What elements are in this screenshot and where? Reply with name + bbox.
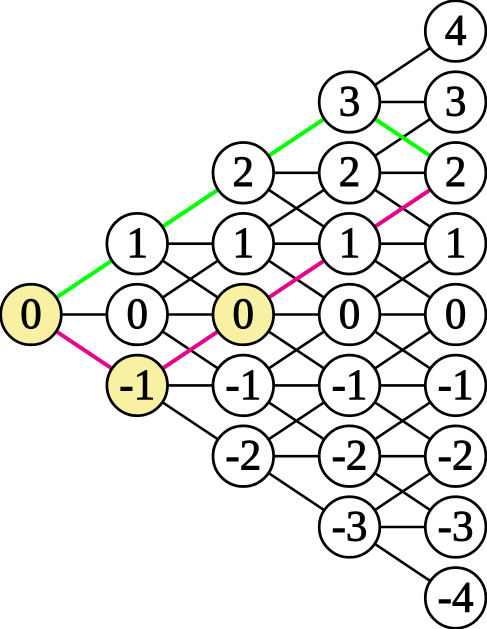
node (2,2) value 2	[213, 143, 274, 204]
svg-text:1: 1	[339, 220, 361, 267]
wire magenta path edge (2,0)-(3,1)	[243, 244, 349, 315]
wire edge (1,-1)-(2,-2)	[137, 385, 243, 456]
node (3,2) value 2	[319, 143, 380, 204]
svg-text:2: 2	[339, 149, 361, 196]
wire magenta path edge (0,0)-(1,-1)	[31, 315, 137, 386]
wire edge (3,0)-(4,-1)	[350, 315, 456, 386]
node (2,-2) value -2	[213, 426, 274, 487]
wire edge (2,2)-(3,2)	[243, 172, 349, 175]
wire magenta path edge (3,1)-(4,2)	[350, 173, 456, 244]
svg-text:2: 2	[233, 149, 255, 196]
wire green path edge (3,3)-(4,2)	[350, 102, 456, 173]
svg-text:1: 1	[126, 220, 148, 267]
node (1,-1) value -1	[107, 355, 168, 416]
svg-text:-2: -2	[438, 433, 474, 480]
wire green path edge (1,1)-(2,2)	[137, 173, 243, 244]
wire edge (2,0)-(3,-1)	[243, 315, 349, 386]
wire edge (3,2)-(4,2)	[350, 172, 456, 175]
wire edge (0,0)-(1,-1)	[31, 315, 137, 386]
wire edge (1,1)-(2,1)	[137, 242, 243, 245]
node (4,-2) value -2	[425, 426, 486, 487]
wire edge (2,0)-(3,0)	[243, 313, 349, 316]
wire edge (2,-2)-(3,-1)	[243, 385, 349, 456]
node (4,-4) value -4	[425, 568, 486, 629]
wire edge (3,1)-(4,1)	[350, 242, 456, 245]
svg-text:4: 4	[445, 8, 467, 55]
wire edge (2,-1)-(3,0)	[243, 315, 349, 386]
wire edge (2,2)-(3,1)	[243, 173, 349, 244]
node (4,-1) value -1	[425, 355, 486, 416]
wire edge (3,1)-(4,0)	[350, 244, 456, 315]
svg-text:-2: -2	[332, 433, 368, 480]
node (2,1) value 1	[213, 213, 274, 274]
wire edge (3,-1)-(4,-1)	[350, 384, 456, 387]
wire edge (2,-2)-(3,-2)	[243, 455, 349, 458]
wire edge (3,-2)-(4,-1)	[350, 385, 456, 456]
wire edge (2,1)-(3,0)	[243, 244, 349, 315]
node (2,0) value 0	[213, 284, 274, 345]
wire green path edge (2,2)-(3,3)	[243, 102, 349, 173]
wire edge (3,0)-(4,0)	[350, 313, 456, 316]
wire edge (3,3)-(4,2)	[350, 102, 456, 173]
wire edge (2,-1)-(3,-1)	[243, 384, 349, 387]
node (3,-3) value -3	[319, 497, 380, 558]
wire edge (1,0)-(2,1)	[137, 244, 243, 315]
node (3,1) value 1	[319, 213, 380, 274]
node (4,-3) value -3	[425, 497, 486, 558]
node (1,0) value 0	[107, 284, 168, 345]
wire edge (3,-3)-(4,-4)	[350, 527, 456, 598]
svg-text:-1: -1	[225, 362, 261, 409]
wire edge (1,-1)-(2,0)	[137, 315, 243, 386]
svg-text:0: 0	[339, 291, 361, 338]
svg-text:2: 2	[445, 149, 467, 196]
node (4,2) value 2	[425, 143, 486, 204]
svg-text:-1: -1	[438, 362, 474, 409]
svg-text:-1: -1	[332, 362, 368, 409]
wire edge (3,-2)-(4,-2)	[350, 455, 456, 458]
wire edge (3,1)-(4,2)	[350, 173, 456, 244]
node (0,0) value 0	[1, 284, 62, 345]
wire edge (3,2)-(4,1)	[350, 173, 456, 244]
svg-text:-2: -2	[225, 433, 261, 480]
node (1,1) value 1	[107, 213, 168, 274]
svg-text:1: 1	[233, 220, 255, 267]
wire edge (3,3)-(4,4)	[350, 31, 456, 102]
node (3,-1) value -1	[319, 355, 380, 416]
wire edge (2,2)-(3,3)	[243, 102, 349, 173]
svg-text:-1: -1	[119, 362, 155, 409]
wire edge (3,-3)-(4,-3)	[350, 526, 456, 529]
node (3,0) value 0	[319, 284, 380, 345]
wire edge (3,-1)-(4,0)	[350, 315, 456, 386]
wire edge (3,-2)-(4,-3)	[350, 456, 456, 527]
svg-text:3: 3	[445, 78, 467, 125]
wire edge (2,0)-(3,1)	[243, 244, 349, 315]
node (4,1) value 1	[425, 213, 486, 274]
svg-text:0: 0	[20, 291, 42, 338]
wire edge (2,-2)-(3,-3)	[243, 456, 349, 527]
node (4,4) value 4	[425, 1, 486, 62]
wire edge (1,0)-(2,-1)	[137, 315, 243, 386]
wire edge (1,-1)-(2,-1)	[137, 384, 243, 387]
wire edge (1,1)-(2,2)	[137, 173, 243, 244]
wire edge (2,-1)-(3,-2)	[243, 385, 349, 456]
wire green path edge (0,0)-(1,1)	[31, 244, 137, 315]
wire edge (3,-1)-(4,-2)	[350, 385, 456, 456]
wire edge (3,2)-(4,3)	[350, 102, 456, 173]
wire edge (2,1)-(3,2)	[243, 173, 349, 244]
node (4,0) value 0	[425, 284, 486, 345]
wire edge (3,3)-(4,3)	[350, 101, 456, 104]
svg-text:0: 0	[233, 291, 255, 338]
node (3,-2) value -2	[319, 426, 380, 487]
svg-text:3: 3	[339, 78, 361, 125]
svg-text:1: 1	[445, 220, 467, 267]
svg-text:-3: -3	[332, 503, 368, 550]
wire edge (1,0)-(2,0)	[137, 313, 243, 316]
wire edge (2,1)-(3,1)	[243, 242, 349, 245]
wire edge (0,0)-(1,0)	[31, 313, 137, 316]
svg-text:-4: -4	[438, 574, 474, 621]
wire edge (3,0)-(4,1)	[350, 244, 456, 315]
svg-text:0: 0	[445, 291, 467, 338]
svg-text:0: 0	[126, 291, 148, 338]
wire edge (0,0)-(1,1)	[31, 244, 137, 315]
wire edge (1,1)-(2,0)	[137, 244, 243, 315]
svg-text:-3: -3	[438, 503, 474, 550]
wire magenta path edge (1,-1)-(2,0)	[137, 315, 243, 386]
node (2,-1) value -1	[213, 355, 274, 416]
node (4,3) value 3	[425, 72, 486, 133]
wire edge (3,-3)-(4,-2)	[350, 456, 456, 527]
node (3,3) value 3	[319, 72, 380, 133]
